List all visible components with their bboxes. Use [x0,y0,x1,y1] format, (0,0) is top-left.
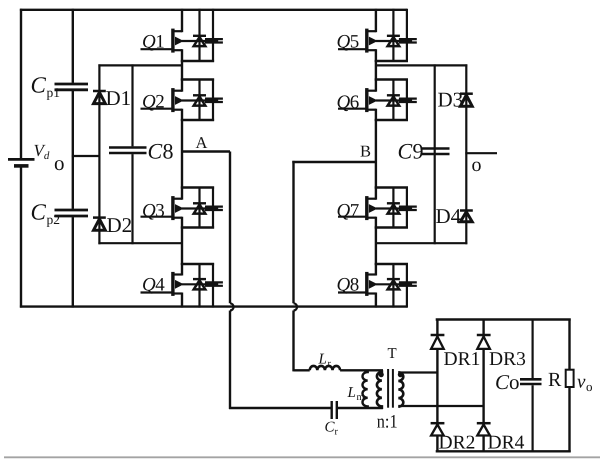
svg-text:Q: Q [142,275,156,296]
capacitor Cp2 [55,210,89,216]
rectifier diode DR2 [431,423,445,435]
svg-text:L: L [318,352,327,368]
svg-text:5: 5 [350,32,360,53]
transistor Q6 [338,79,412,122]
wire: clamp-diode rail (right) [465,64,467,244]
svg-text:A: A [196,133,208,152]
svg-text:DR1: DR1 [444,349,481,370]
svg-text:n:1: n:1 [377,411,398,432]
wire: rectifier bottom rail [436,450,571,452]
snubber capacitor of Q2 [205,79,223,122]
snubber capacitor of Q5 [399,9,417,62]
wire: top bar of Q3 cell [181,186,214,188]
svg-text:DR4: DR4 [488,433,525,454]
wire: upper flying link (right) [376,64,467,66]
wire: top DC rail [20,9,407,11]
magnetizing inductor Lm [363,370,368,408]
wire: upper flying link (left) [98,64,183,66]
svg-text:B: B [360,142,371,161]
svg-text:D2: D2 [107,213,133,237]
wire: split-capacitor rail [72,9,74,83]
wire: top bar of Q8 cell [375,263,408,265]
snubber capacitor of Q1 [205,9,223,62]
wire: Q6-Q7 link through node B [375,119,377,189]
wire: neutral link o [72,155,101,157]
wire: DR3/DR4 leg [482,319,484,453]
svg-text:Q: Q [337,32,351,53]
svg-text:6: 6 [350,92,360,113]
wire: Q5-Q6 link [375,60,377,81]
wire: top bar of Q7 cell [375,186,408,188]
svg-text:R: R [548,369,562,391]
svg-text:Q: Q [142,32,156,53]
svg-text:v: v [577,372,586,393]
wire: bottom DC rail [20,305,407,307]
scan artifact line at bottom [4,456,600,458]
wire: node A to tank [181,152,331,410]
transformer polarity dot (secondary) [398,372,403,377]
body diode of Q4 [193,263,206,308]
wire: Q7-Q8 link [375,227,377,266]
wire: Q3-Q4 link [181,227,183,266]
body diode of Q7 [387,187,400,229]
svg-text:C: C [398,139,413,164]
svg-text:p1: p1 [47,85,61,100]
wire: rectifier top rail [436,318,571,320]
svg-text:DR3: DR3 [489,349,526,370]
wire: bottom bar of Q7 cell [375,226,408,228]
svg-text:C: C [148,139,163,164]
transistor Q3 [141,187,219,229]
svg-text:D4: D4 [436,204,462,228]
svg-text:o: o [54,151,65,175]
transistor Q4 [141,263,219,308]
snubber capacitor of Q4 [205,263,223,308]
transformer T secondary winding [398,372,403,406]
svg-text:Q: Q [337,92,351,113]
svg-text:9: 9 [413,139,424,164]
svg-text:D1: D1 [106,86,132,110]
flying capacitor C9 [422,64,450,244]
flying capacitor C8 [109,64,147,244]
svg-text:Q: Q [337,201,351,222]
rectifier diode DR3 [477,335,491,349]
transistor Q2 [141,79,219,122]
snubber capacitor of Q6 [399,79,417,122]
transformer core [388,369,393,408]
rectifier diode DR1 [431,335,445,349]
transistor Q7 [338,187,412,229]
wire: secondary bottom lead [398,405,483,407]
wire: DR1/DR2 leg [436,319,438,453]
svg-text:p2: p2 [47,212,61,227]
transistor Q8 [338,263,412,308]
svg-text:Q: Q [142,92,156,113]
svg-text:C: C [31,199,47,224]
body diode of Q1 [193,9,206,62]
svg-text:C: C [31,73,47,98]
svg-text:1: 1 [155,32,165,53]
wire: Lr to primary [340,369,383,371]
transformer polarity dot (primary) [379,372,384,377]
svg-text:Q: Q [337,275,351,296]
transistor Q1 [141,9,219,62]
wire: lower flying link (right) [376,242,467,244]
svg-text:m: m [357,392,365,403]
transformer T primary winding [377,370,382,409]
svg-text:C: C [495,370,510,394]
node o (right neutral terminal) [465,152,497,154]
svg-text:T: T [388,346,397,362]
rectifier diode DR4 [477,423,491,435]
svg-text:8: 8 [350,275,360,296]
wire: top bar of Q6 cell [375,78,408,80]
svg-text:L: L [347,385,356,401]
svg-text:o: o [586,379,593,394]
wire: bottom bar of Q2 cell [181,119,214,121]
resonant inductor Lr [310,366,340,370]
svg-text:3: 3 [155,201,165,222]
output capacitor Co [520,319,542,453]
body diode of Q5 [387,9,400,62]
wire: bottom bar of Q5 cell [375,60,408,62]
body diode of Q8 [387,263,400,308]
load resistor R [566,319,574,453]
wire: Q1-Q2 link [181,60,183,81]
svg-text:o: o [472,154,482,176]
svg-text:DR2: DR2 [439,433,476,454]
wire: lower flying link (left) [98,242,183,244]
wire: bottom bar of Q1 cell [181,60,214,62]
resonant capacitor Cr [332,401,337,419]
svg-text:7: 7 [350,201,360,222]
voltage source Vd (battery) [8,9,35,308]
wire: top bar of Q2 cell [181,78,214,80]
clamping diode D3 [460,94,473,107]
clamping diode D2 [93,218,106,231]
capacitor Cp1 [55,84,89,90]
svg-text:D3: D3 [438,88,464,112]
svg-text:8: 8 [163,139,174,164]
svg-text:2: 2 [155,92,165,113]
wire: Q2-Q3 link through node A [181,119,183,189]
snubber capacitor of Q7 [399,187,417,229]
wire: secondary top lead [398,371,438,373]
svg-text:o: o [509,370,520,394]
wire: clamp-diode rail (left) [98,64,100,244]
snubber capacitor of Q8 [399,263,417,308]
wire: Cr to primary bottom [338,407,383,409]
wire: bottom bar of Q3 cell [181,226,214,228]
svg-text:4: 4 [155,275,165,296]
wire: bottom bar of Q6 cell [375,119,408,121]
snubber capacitor of Q3 [205,187,223,229]
body diode of Q2 [193,79,206,122]
wire: top bar of Q4 cell [181,263,214,265]
clamping diode D1 [93,91,106,104]
body diode of Q6 [387,79,400,122]
body diode of Q3 [193,187,206,229]
transistor Q5 [338,9,412,62]
wire: node B to tank [292,161,376,372]
svg-text:Q: Q [142,201,156,222]
clamping diode D4 [460,211,473,222]
